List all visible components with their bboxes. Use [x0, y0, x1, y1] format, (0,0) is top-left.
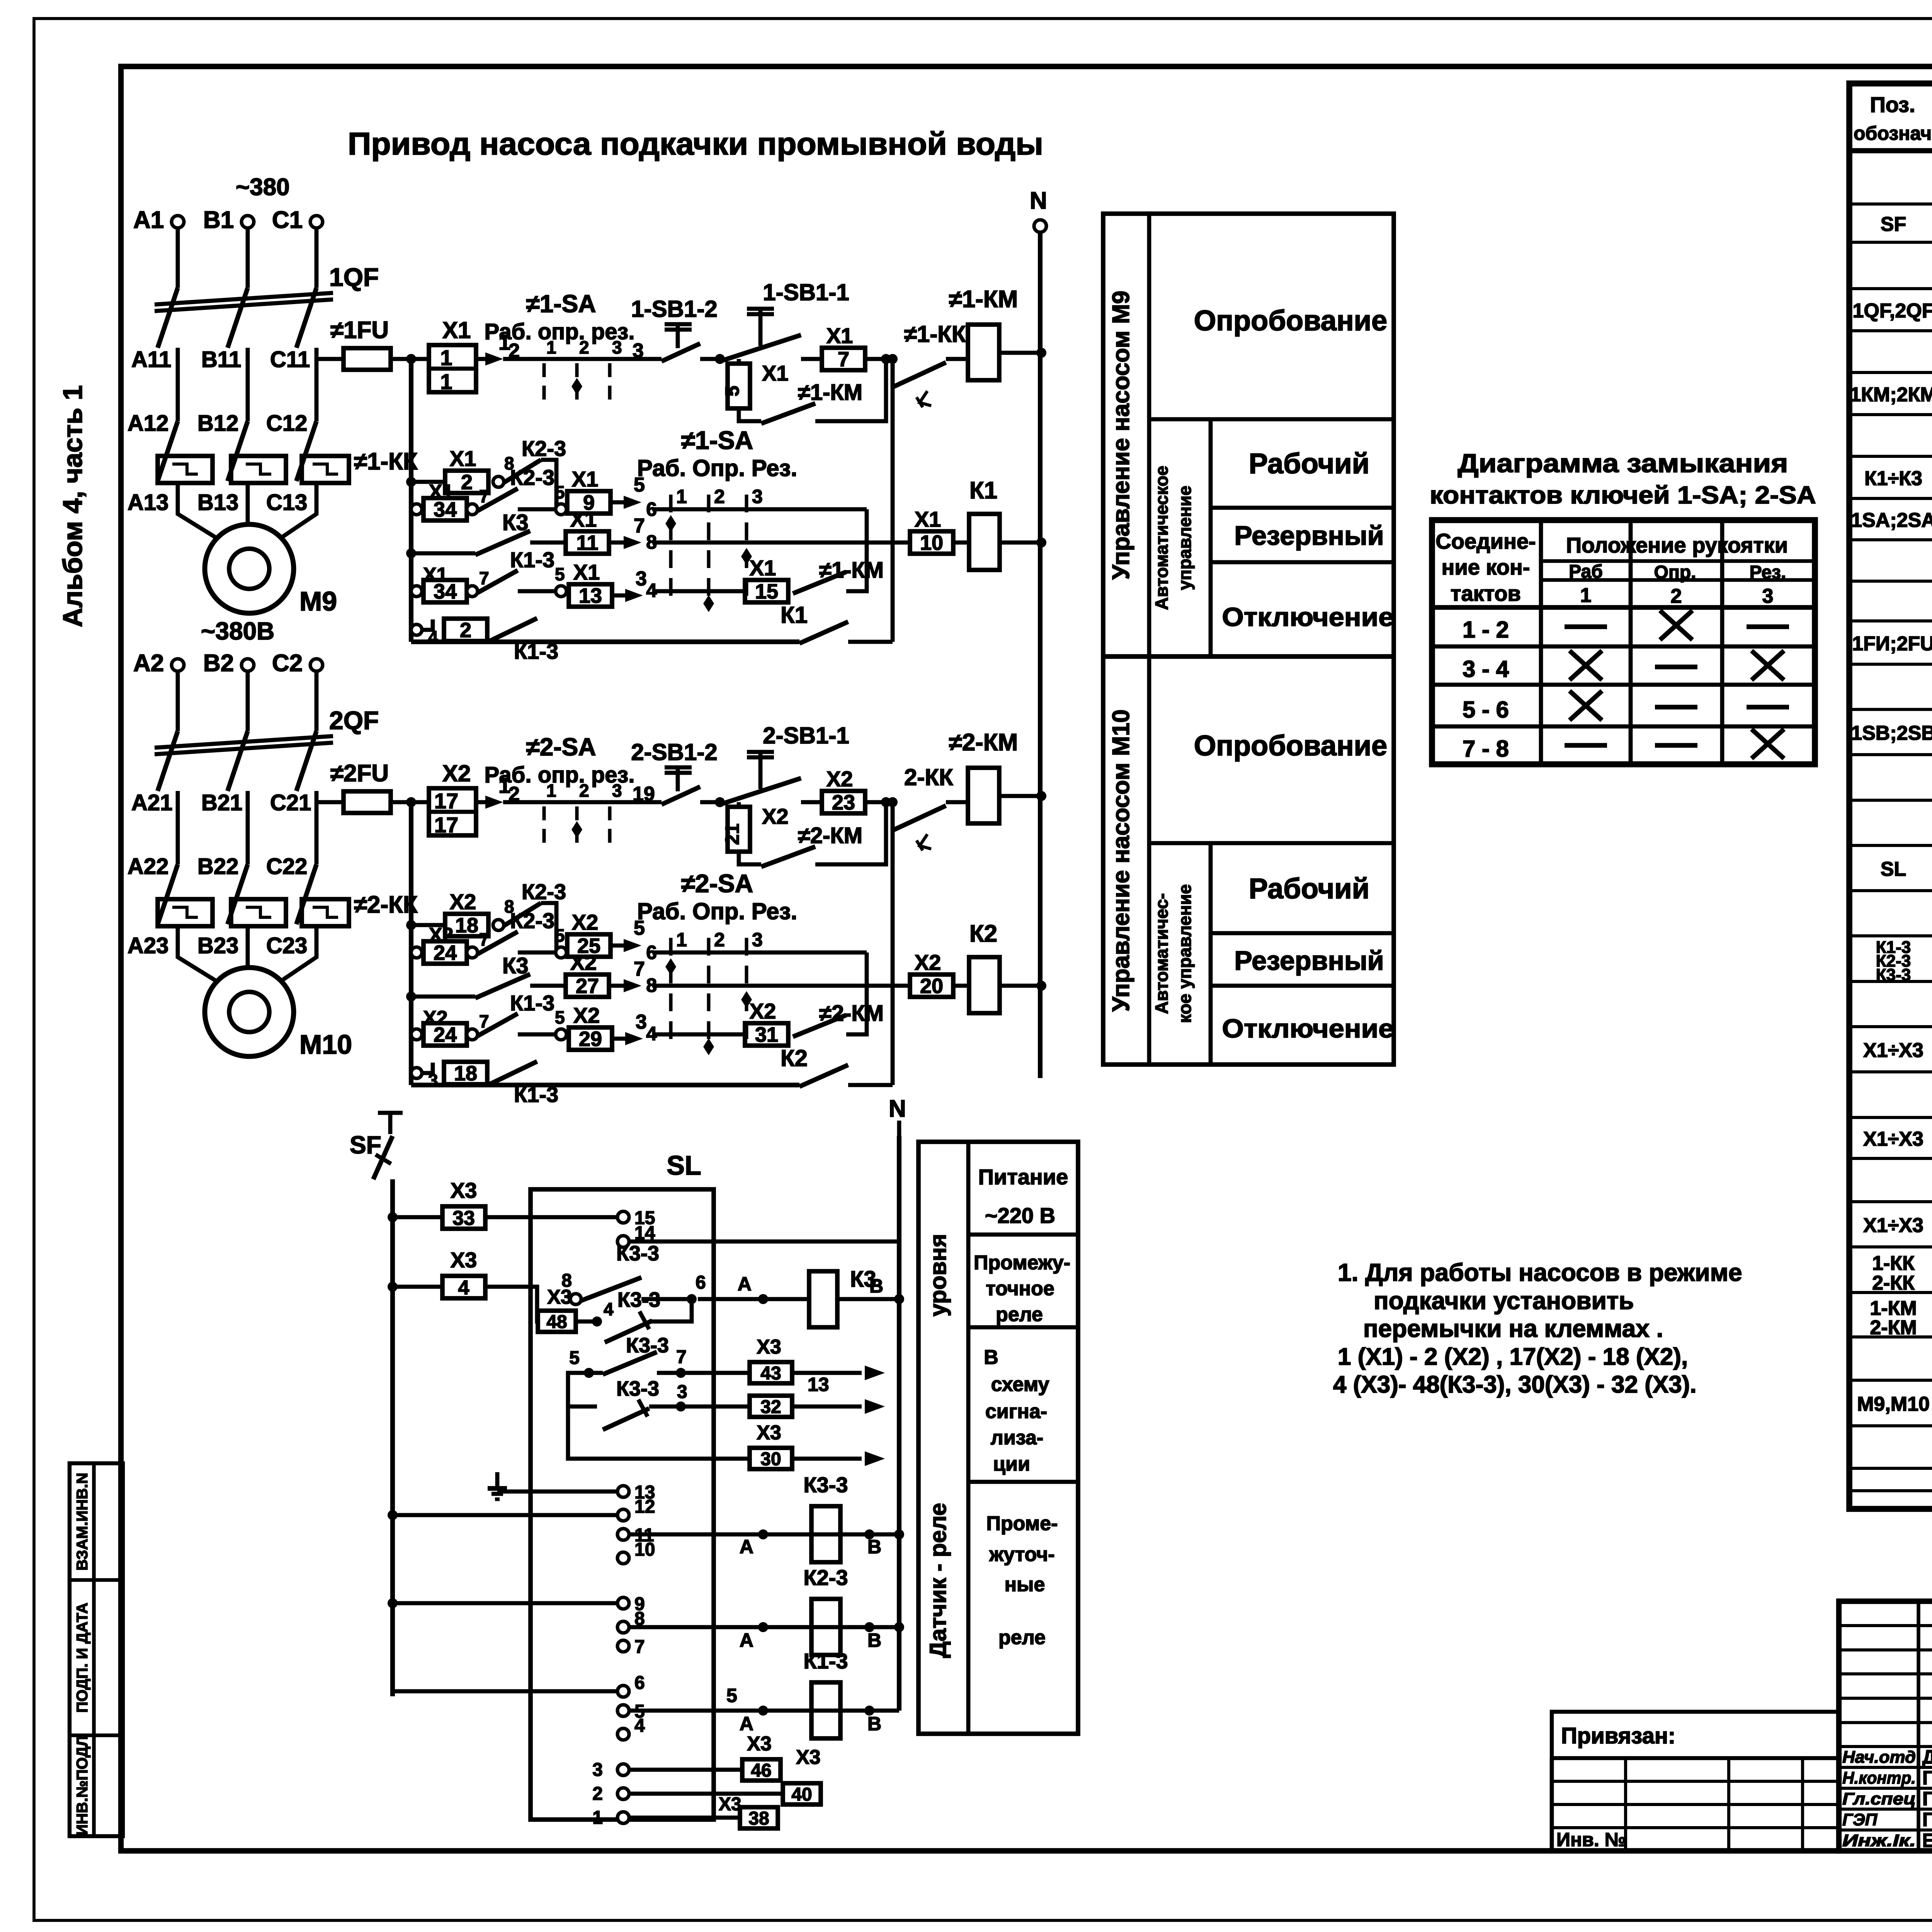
svg-text:В21: В21 — [201, 790, 242, 815]
svg-text:В1: В1 — [203, 207, 234, 233]
svg-text:С13: С13 — [266, 490, 307, 515]
svg-text:К1: К1 — [781, 602, 808, 628]
svg-text:3: 3 — [636, 568, 647, 590]
svg-text:~380В: ~380В — [201, 617, 274, 645]
svg-text:1: 1 — [676, 929, 687, 951]
wire to X3-30 — [568, 1406, 750, 1459]
svg-text:Датчик - реле: Датчик - реле — [925, 1503, 951, 1658]
svg-text:К1÷К3: К1÷К3 — [1864, 468, 1922, 490]
svg-text:Гусева: Гусева — [1922, 1809, 1932, 1830]
svg-text:2-КК: 2-КК — [904, 764, 953, 790]
pump control mode table — [1103, 214, 1394, 1065]
svg-text:В: В — [867, 1536, 881, 1558]
svg-text:А13: А13 — [128, 490, 168, 515]
svg-text:кое управление: кое управление — [1175, 884, 1195, 1023]
svg-text:точное: точное — [986, 1277, 1054, 1300]
terminal А2 — [172, 659, 184, 671]
svg-text:17: 17 — [434, 813, 458, 837]
svg-text:К3-3: К3-3 — [1876, 965, 1911, 984]
wire — [315, 228, 319, 288]
svg-text:N: N — [889, 1095, 906, 1122]
SF bus wire — [390, 1179, 395, 1696]
svg-text:X2: X2 — [442, 760, 471, 786]
svg-text:Гл.спец: Гл.спец — [1842, 1789, 1916, 1808]
svg-text:2-SB1-1: 2-SB1-1 — [763, 723, 849, 748]
svg-text:7: 7 — [634, 1637, 645, 1657]
svg-text:жуточ-: жуточ- — [989, 1543, 1054, 1566]
svg-text:К2-3: К2-3 — [522, 879, 566, 904]
svg-text:SF: SF — [1881, 213, 1906, 236]
wire — [176, 671, 180, 731]
svg-text:Елизарова: Елизарова — [1922, 1830, 1932, 1851]
svg-text:1-SB1-2: 1-SB1-2 — [631, 296, 717, 322]
svg-text:С12: С12 — [266, 411, 307, 436]
svg-text:38: 38 — [748, 1808, 769, 1829]
wire — [176, 228, 180, 288]
svg-text:2-КМ: 2-КМ — [1870, 1316, 1917, 1339]
svg-text:48: 48 — [546, 1312, 567, 1332]
svg-text:В: В — [984, 1346, 998, 1369]
relay K1-3 coil — [629, 1709, 899, 1713]
svg-text:X1: X1 — [827, 323, 853, 348]
svg-text:≠1-КК: ≠1-КК — [354, 448, 418, 475]
control left bus wire — [409, 359, 413, 642]
wire — [176, 361, 180, 421]
interlock row 4 — [411, 586, 422, 597]
wire — [176, 804, 180, 864]
svg-text:А: А — [738, 1273, 752, 1295]
svg-text:ные: ные — [1005, 1573, 1045, 1596]
wire — [315, 671, 319, 731]
svg-text:34: 34 — [434, 580, 457, 603]
relay K2-3 coil — [629, 1625, 899, 1629]
svg-text:Раб: Раб — [1569, 561, 1603, 582]
wire — [246, 671, 250, 731]
control top wire — [503, 800, 536, 804]
contact diagram table grid — [1432, 520, 1815, 764]
svg-text:X1: X1 — [570, 507, 597, 531]
svg-text:X1: X1 — [450, 446, 476, 471]
svg-text:Привязан:: Привязан: — [1561, 1723, 1675, 1748]
svg-text:SL: SL — [667, 1150, 701, 1180]
svg-text:К1: К1 — [969, 477, 997, 504]
parts list table grid — [1849, 83, 1932, 1509]
svg-text:1QF,2QF: 1QF,2QF — [1853, 300, 1932, 322]
svg-text:29: 29 — [579, 1027, 602, 1051]
svg-text:В22: В22 — [197, 854, 238, 879]
svg-text:X1: X1 — [915, 507, 941, 531]
svg-text:2: 2 — [509, 783, 520, 805]
svg-text:2: 2 — [509, 340, 520, 362]
svg-text:контактов ключей 1-SA; 2-SA: контактов ключей 1-SA; 2-SA — [1430, 481, 1816, 509]
svg-text:Поз.: Поз. — [1870, 92, 1915, 117]
svg-text:Резервный: Резервный — [1234, 520, 1384, 551]
svg-text:2QF: 2QF — [329, 706, 379, 735]
svg-text:А1: А1 — [133, 207, 164, 233]
svg-text:1: 1 — [546, 781, 556, 801]
interlock row 5 — [411, 624, 422, 635]
svg-text:2: 2 — [714, 486, 725, 507]
svg-text:1: 1 — [676, 486, 687, 507]
stamp column boxes — [70, 1463, 123, 1836]
wire — [246, 804, 250, 864]
svg-text:≠2-КМ: ≠2-КМ — [798, 823, 862, 848]
svg-text:X3: X3 — [796, 1746, 821, 1769]
SL sensor box — [531, 1189, 714, 1820]
svg-text:К3-3: К3-3 — [617, 1288, 660, 1311]
svg-text:Питание: Питание — [978, 1165, 1068, 1189]
svg-text:Н.контр.: Н.контр. — [1842, 1769, 1916, 1787]
svg-text:2-КК: 2-КК — [1872, 1272, 1915, 1294]
wire — [315, 804, 319, 864]
svg-text:20: 20 — [920, 975, 943, 998]
svg-text:А: А — [740, 1713, 753, 1735]
svg-text:12: 12 — [634, 1497, 655, 1517]
svg-text:15: 15 — [755, 580, 778, 603]
svg-text:Раб. Опр. Рез.: Раб. Опр. Рез. — [637, 898, 797, 924]
svg-text:К1-3: К1-3 — [510, 991, 554, 1015]
svg-text:Автоматичес-: Автоматичес- — [1151, 893, 1172, 1014]
svg-text:3: 3 — [612, 337, 622, 357]
svg-text:Раб. Опр. Рез.: Раб. Опр. Рез. — [637, 455, 797, 481]
svg-text:1QF: 1QF — [329, 263, 379, 291]
svg-text:реле: реле — [998, 1626, 1046, 1649]
svg-text:1SA;2SA: 1SA;2SA — [1851, 509, 1932, 532]
relay coil К1 — [969, 514, 1000, 570]
svg-text:X2: X2 — [572, 910, 599, 934]
aux contact 1-КМ — [761, 403, 815, 423]
wire — [246, 228, 250, 288]
relay coil К2 — [969, 957, 1000, 1013]
svg-text:Опробование: Опробование — [1194, 304, 1388, 337]
svg-text:X1÷X3: X1÷X3 — [1863, 1128, 1923, 1150]
svg-text:В: В — [867, 1713, 881, 1735]
svg-text:X2: X2 — [750, 999, 776, 1023]
SL internal contact group 2 — [584, 1368, 594, 1378]
circuit breaker 2QF — [158, 731, 178, 791]
svg-text:31: 31 — [755, 1023, 778, 1046]
svg-text:1FИ;2FU: 1FИ;2FU — [1852, 633, 1932, 655]
svg-text:10: 10 — [920, 531, 943, 554]
svg-text:С21: С21 — [270, 790, 311, 815]
svg-text:X3: X3 — [451, 1248, 477, 1272]
svg-text:С23: С23 — [266, 933, 307, 958]
terminal N — [1034, 220, 1046, 232]
svg-text:≠2-SA: ≠2-SA — [526, 733, 596, 761]
svg-text:4: 4 — [634, 1716, 645, 1736]
svg-text:18: 18 — [455, 914, 478, 937]
svg-text:Проме-: Проме- — [986, 1512, 1058, 1535]
interlock row 2 — [411, 504, 422, 515]
svg-text:К1-3: К1-3 — [514, 1082, 558, 1107]
svg-text:Резервный: Резервный — [1234, 946, 1384, 976]
svg-text:6: 6 — [634, 1673, 645, 1693]
level sensor annotation table — [918, 1142, 1078, 1734]
svg-text:2: 2 — [460, 619, 471, 642]
svg-text:А11: А11 — [131, 347, 171, 372]
terminal block X1 — [429, 345, 476, 392]
svg-text:≠2-КК: ≠2-КК — [354, 891, 418, 918]
svg-text:Гольцман: Гольцман — [1922, 1788, 1932, 1810]
start button 1-SB1-1 — [720, 335, 801, 361]
attachment table — [1552, 1712, 1839, 1758]
svg-text:В2: В2 — [203, 650, 234, 677]
svg-text:≠1FU: ≠1FU — [330, 317, 389, 344]
svg-text:реле: реле — [996, 1303, 1043, 1326]
terminal block X3-38 — [629, 1816, 740, 1820]
svg-text:Опр.: Опр. — [1654, 562, 1696, 583]
svg-text:Диаграмма замыкания: Диаграмма замыкания — [1458, 449, 1788, 478]
svg-text:1: 1 — [1580, 584, 1592, 607]
wire — [315, 361, 319, 421]
svg-text:ции: ции — [993, 1453, 1030, 1475]
motor leads — [178, 944, 216, 981]
svg-text:5: 5 — [555, 1007, 565, 1027]
svg-text:Положение рукоятки: Положение рукоятки — [1566, 533, 1788, 557]
interlock row 5 — [411, 1068, 422, 1078]
svg-text:3 - 4: 3 - 4 — [1463, 656, 1509, 682]
svg-text:2: 2 — [579, 337, 589, 357]
svg-text:11: 11 — [576, 531, 598, 554]
svg-text:27: 27 — [576, 975, 599, 998]
svg-text:Инж.Iк.: Инж.Iк. — [1842, 1831, 1916, 1850]
svg-text:X3: X3 — [757, 1422, 781, 1444]
svg-text:Привод насоса подкачки п: Привод насоса подкачки промывной воды — [348, 126, 1043, 162]
svg-text:24: 24 — [434, 941, 457, 964]
svg-text:≠2-КМ: ≠2-КМ — [949, 729, 1018, 756]
svg-text:3: 3 — [636, 1011, 647, 1033]
svg-text:1: 1 — [440, 369, 452, 394]
terminal А1 — [172, 216, 184, 228]
svg-text:А: А — [740, 1536, 753, 1558]
svg-text:схему: схему — [991, 1373, 1049, 1396]
svg-text:К1-3: К1-3 — [510, 548, 554, 572]
terminal block X3-48 — [538, 1311, 576, 1332]
SL internal contact group 3 — [568, 1373, 597, 1406]
svg-text:3: 3 — [752, 486, 763, 507]
svg-text:К2: К2 — [781, 1045, 808, 1071]
svg-text:ВЗАМ.ИНВ.N: ВЗАМ.ИНВ.N — [74, 1473, 91, 1570]
svg-text:2: 2 — [1671, 585, 1682, 607]
svg-text:X1: X1 — [750, 556, 776, 580]
svg-text:С22: С22 — [266, 854, 307, 879]
svg-text:5: 5 — [555, 482, 565, 502]
svg-text:13: 13 — [579, 584, 602, 607]
svg-text:Нач.отд: Нач.отд — [1842, 1748, 1916, 1767]
svg-text:1. Для работы насосов в р: 1. Для работы насосов в режиме — [1338, 1259, 1742, 1286]
terminal С1 — [310, 216, 323, 228]
terminal С2 — [310, 659, 323, 671]
svg-text:≠1-КК: ≠1-КК — [904, 321, 966, 347]
SL internal contact K3-3 upper — [570, 1294, 581, 1304]
svg-text:подкачки установить: подкачки установить — [1374, 1287, 1634, 1315]
svg-text:К3-3: К3-3 — [616, 1377, 659, 1400]
svg-text:X1: X1 — [762, 361, 789, 385]
svg-text:С11: С11 — [270, 347, 310, 372]
svg-text:В11: В11 — [201, 347, 241, 372]
K3 coil — [698, 1297, 809, 1301]
svg-text:X2: X2 — [762, 804, 789, 828]
svg-text:М9: М9 — [299, 586, 337, 616]
svg-text:Управление насосом М9: Управление насосом М9 — [1108, 291, 1134, 580]
svg-text:46: 46 — [751, 1760, 771, 1781]
svg-text:≠2-SA: ≠2-SA — [681, 869, 753, 898]
svg-text:сигна-: сигна- — [985, 1400, 1047, 1423]
svg-text:3: 3 — [677, 1382, 687, 1402]
svg-text:5: 5 — [555, 564, 565, 584]
svg-text:Рабочий: Рабочий — [1249, 872, 1370, 905]
svg-text:5: 5 — [726, 1685, 737, 1706]
svg-text:X3: X3 — [719, 1794, 742, 1815]
fuse 2FU — [316, 800, 344, 804]
svg-text:≠1-SA: ≠1-SA — [681, 426, 753, 454]
terminal block X2 — [429, 788, 476, 835]
svg-text:≠1-SA: ≠1-SA — [526, 290, 596, 318]
svg-text:Отключение: Отключение — [1222, 602, 1394, 632]
svg-text:X2: X2 — [450, 889, 476, 914]
svg-text:7 - 8: 7 - 8 — [1463, 736, 1509, 762]
svg-text:2-SB1-2: 2-SB1-2 — [631, 739, 717, 765]
start button 2-SB1-1 — [720, 778, 801, 804]
svg-text:43: 43 — [760, 1363, 781, 1384]
motor М10 — [205, 968, 294, 1056]
svg-text:2: 2 — [579, 781, 589, 801]
svg-text:X2: X2 — [570, 950, 597, 975]
svg-text:лиза-: лиза- — [991, 1427, 1043, 1449]
terminal block X3-32 — [750, 1396, 792, 1417]
svg-text:Инв. №: Инв. № — [1556, 1829, 1626, 1850]
svg-text:8: 8 — [561, 1270, 572, 1291]
svg-text:7: 7 — [634, 958, 645, 980]
N bus wire — [1038, 232, 1043, 1078]
svg-text:В: В — [869, 1275, 883, 1297]
svg-text:Автоматическое: Автоматическое — [1151, 466, 1172, 610]
svg-text:обознач: обознач — [1854, 122, 1932, 144]
title block outer — [1839, 1601, 1932, 1851]
interlock row 1 — [406, 920, 416, 930]
svg-text:23: 23 — [832, 791, 855, 814]
svg-text:4: 4 — [604, 1299, 614, 1319]
stop button 2-SB1-2 — [662, 787, 700, 804]
svg-text:А22: А22 — [128, 854, 168, 879]
svg-text:1SB;2SB: 1SB;2SB — [1851, 722, 1932, 745]
svg-text:X3: X3 — [451, 1178, 477, 1202]
svg-text:К2-3: К2-3 — [510, 908, 554, 933]
terminal block X3-4 — [393, 1285, 442, 1289]
svg-text:3: 3 — [612, 781, 622, 801]
terminal block X3-46 — [629, 1768, 742, 1772]
SL internal contact K3-3 lower — [605, 1321, 652, 1342]
svg-text:5: 5 — [555, 925, 565, 946]
svg-text:3: 3 — [592, 1760, 603, 1780]
contactor main contacts — [158, 864, 178, 924]
svg-text:В13: В13 — [197, 490, 238, 515]
svg-text:X1: X1 — [573, 560, 600, 584]
svg-text:1КМ;2КМ: 1КМ;2КМ — [1850, 384, 1932, 406]
svg-text:управление: управление — [1175, 486, 1195, 590]
terminal block X3-43 — [750, 1362, 792, 1383]
svg-text:3: 3 — [752, 929, 763, 951]
interlock row 4 — [411, 1029, 422, 1040]
svg-text:2: 2 — [592, 1784, 603, 1804]
thermal overload relay 1-КК — [158, 456, 213, 483]
terminal В1 — [241, 216, 254, 228]
terminal block X3-33 — [393, 1215, 442, 1219]
ground symbol — [495, 1472, 500, 1488]
control top wire — [503, 357, 536, 361]
svg-text:ГЭП: ГЭП — [1842, 1810, 1878, 1829]
svg-text:А12: А12 — [128, 411, 168, 436]
svg-text:24: 24 — [434, 1023, 457, 1046]
svg-text:1-SB1-1: 1-SB1-1 — [763, 279, 849, 305]
interlock row 1 — [406, 477, 416, 487]
svg-text:30: 30 — [760, 1449, 781, 1469]
svg-text:3: 3 — [1762, 585, 1774, 607]
svg-text:18: 18 — [454, 1062, 477, 1085]
svg-text:6: 6 — [696, 1272, 706, 1293]
svg-text:К2-3: К2-3 — [522, 436, 566, 461]
terminal В2 — [241, 659, 254, 671]
interlock row 2 — [411, 947, 422, 958]
contactor coil 1-КМ — [968, 325, 999, 380]
svg-text:4 (X3)- 48(К3-3), 30(X3) - 32: 4 (X3)- 48(К3-3), 30(X3) - 32 (X3). — [1333, 1371, 1697, 1398]
svg-text:X1÷X3: X1÷X3 — [1863, 1039, 1923, 1062]
svg-text:Опробование: Опробование — [1194, 730, 1388, 762]
svg-text:X2: X2 — [827, 767, 853, 791]
terminal block X2 hold — [737, 802, 741, 807]
svg-text:перемычки на клеммах .: перемычки на клеммах . — [1363, 1315, 1663, 1342]
svg-text:7: 7 — [676, 1347, 687, 1367]
svg-text:1: 1 — [546, 337, 556, 357]
svg-text:Отключение: Отключение — [1222, 1014, 1394, 1043]
svg-text:X3: X3 — [747, 1733, 772, 1755]
svg-text:К3-3: К3-3 — [626, 1334, 669, 1357]
svg-text:ние кон-: ние кон- — [1442, 555, 1530, 579]
terminal 14 wire to N bus — [629, 1240, 899, 1244]
svg-text:X2: X2 — [573, 1003, 600, 1027]
svg-text:1: 1 — [592, 1808, 603, 1828]
fuse 1FU — [316, 357, 344, 361]
svg-text:17: 17 — [434, 789, 458, 813]
svg-text:С2: С2 — [272, 650, 303, 677]
svg-text:К1-3: К1-3 — [514, 639, 558, 663]
svg-text:Промежу-: Промежу- — [974, 1252, 1070, 1274]
svg-text:К3-3: К3-3 — [803, 1473, 848, 1497]
left bus stubs — [393, 1513, 617, 1517]
svg-text:1 (X1) - 2 (X2) , 17(X2) - 18: 1 (X1) - 2 (X2) , 17(X2) - 18 (X2), — [1338, 1344, 1688, 1370]
svg-text:1 - 2: 1 - 2 — [1463, 617, 1509, 643]
svg-text:1-КК: 1-КК — [1872, 1252, 1915, 1274]
svg-text:тактов: тактов — [1451, 581, 1521, 605]
svg-text:Данилов: Данилов — [1922, 1746, 1932, 1768]
svg-text:М10: М10 — [299, 1029, 352, 1060]
svg-text:34: 34 — [434, 498, 457, 521]
svg-text:А23: А23 — [128, 933, 168, 958]
svg-text:Рез.: Рез. — [1750, 562, 1786, 583]
svg-text:К1-3: К1-3 — [803, 1649, 848, 1673]
svg-text:К2: К2 — [969, 920, 997, 947]
svg-text:≠1-КМ: ≠1-КМ — [798, 380, 862, 405]
svg-text:X1÷X3: X1÷X3 — [1863, 1214, 1923, 1237]
svg-text:1: 1 — [440, 345, 452, 370]
motor М9 — [205, 524, 294, 613]
svg-text:А2: А2 — [133, 650, 164, 677]
svg-text:5: 5 — [721, 386, 743, 396]
svg-text:Альбом 4, часть 1: Альбом 4, часть 1 — [58, 385, 88, 627]
svg-text:~220 В: ~220 В — [985, 1203, 1055, 1228]
stop button 1-SB1-2 — [662, 344, 700, 361]
svg-text:SL: SL — [1881, 858, 1906, 881]
